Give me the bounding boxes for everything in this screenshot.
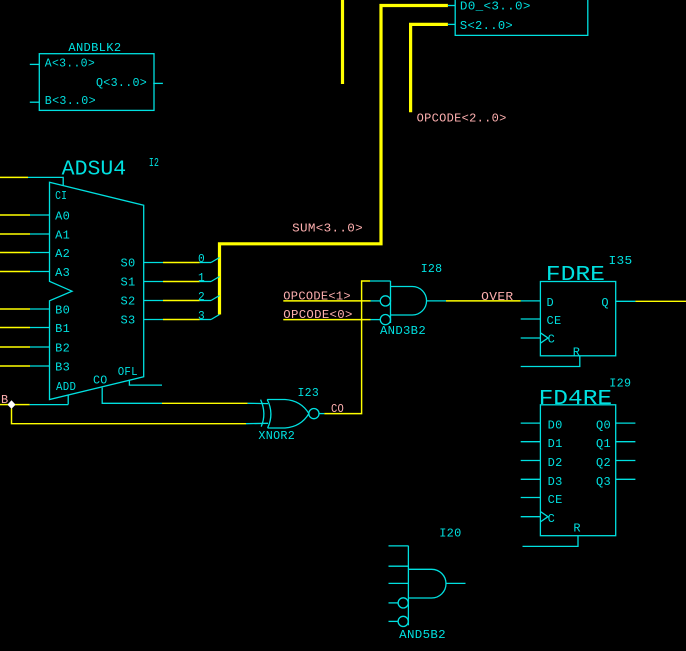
svg-text:Q0: Q0: [596, 419, 611, 433]
svg-text:3: 3: [198, 309, 205, 323]
wire S2 with bus tap 2: [144, 296, 220, 301]
svg-text:A1: A1: [55, 229, 70, 243]
svg-text:S2: S2: [121, 294, 136, 308]
svg-text:D1: D1: [548, 437, 563, 451]
wire A2: [0, 252, 50, 254]
svg-text:R: R: [573, 346, 581, 360]
svg-text:I23: I23: [298, 386, 320, 400]
svg-text:2: 2: [198, 290, 205, 304]
svg-text:B1: B1: [55, 322, 70, 336]
svg-text:FD4RE: FD4RE: [539, 388, 613, 411]
svg-text:SUM<3..0>: SUM<3..0>: [292, 222, 363, 236]
pin stub D1: [521, 441, 541, 443]
wire CI: [0, 177, 63, 185]
svg-text:ANDBLK2: ANDBLK2: [68, 41, 121, 55]
pin stub Q0: [616, 422, 636, 424]
svg-text:OFL: OFL: [118, 365, 138, 379]
adder ADSU4 outline: [50, 182, 144, 399]
svg-text:I20: I20: [439, 527, 461, 541]
flip-flop FD4RE I29: [540, 405, 615, 536]
wire B2: [0, 346, 50, 348]
svg-text:B3: B3: [55, 361, 70, 375]
gate AND3B2 I28: [380, 281, 426, 325]
pin stub 5: [389, 545, 409, 547]
clock triangle FD4RE: [540, 512, 548, 522]
svg-text:D2: D2: [548, 456, 563, 470]
svg-text:B<3..0>: B<3..0>: [45, 94, 96, 108]
wire XNOR output / net CO: [319, 281, 391, 414]
svg-text:CO: CO: [331, 402, 344, 416]
svg-text:A3: A3: [55, 266, 70, 280]
wire B0: [0, 308, 50, 310]
svg-text:A0: A0: [55, 210, 70, 224]
pin stub R: [523, 536, 579, 547]
svg-text:I29: I29: [609, 377, 631, 391]
pin stub A<3..0>: [30, 63, 40, 65]
svg-text:D3: D3: [548, 475, 563, 489]
block top-right (partial): [455, 0, 588, 35]
svg-text:A<3..0>: A<3..0>: [45, 57, 95, 71]
svg-text:XNOR2: XNOR2: [258, 429, 295, 443]
wire A1: [0, 233, 50, 235]
svg-text:Q: Q: [601, 296, 609, 310]
wire OPCODE<0>: [283, 319, 380, 321]
pin stub Q2: [616, 460, 636, 462]
svg-text:AND3B2: AND3B2: [380, 324, 426, 338]
svg-text:C: C: [548, 512, 556, 526]
pin stub B<3..0>: [30, 101, 40, 103]
wire S0 with bus tap 0: [144, 258, 220, 263]
svg-text:FDRE: FDRE: [546, 264, 605, 287]
svg-text:I35: I35: [609, 254, 633, 268]
block ANDBLK2: [39, 54, 154, 111]
wire B3: [0, 365, 50, 367]
svg-text:D: D: [547, 296, 555, 310]
bus OPCODE<2..0> net: [411, 24, 448, 112]
svg-text:CI: CI: [55, 189, 67, 203]
wire B horizontal: [0, 404, 68, 406]
wire B1: [0, 327, 50, 329]
svg-text:C: C: [548, 333, 556, 347]
svg-text:OPCODE<2..0>: OPCODE<2..0>: [417, 112, 507, 126]
svg-text:Q2: Q2: [596, 456, 611, 470]
svg-text:B0: B0: [55, 304, 70, 318]
pin stub D3: [521, 478, 541, 480]
pin stub 3: [389, 582, 409, 584]
pin stub Q<3..0>: [153, 82, 163, 84]
pin stub ADD: [67, 395, 69, 405]
svg-text:S1: S1: [121, 275, 136, 289]
pin stub D0_: [448, 5, 455, 7]
svg-text:I28: I28: [421, 262, 443, 276]
pin stub CE: [521, 497, 541, 499]
svg-text:D0: D0: [548, 419, 563, 433]
pin stub 4: [389, 565, 409, 567]
bus vertical (left of block, unnamed): [341, 0, 344, 84]
svg-text:CE: CE: [548, 493, 563, 507]
pin stub C: [521, 337, 541, 339]
svg-text:OPCODE<0>: OPCODE<0>: [283, 308, 352, 322]
svg-text:Q1: Q1: [596, 437, 611, 451]
svg-text:A2: A2: [55, 247, 70, 261]
pin stub CO + wire to XNOR: [102, 388, 268, 404]
pin stub D2: [521, 460, 541, 462]
pin stub D0: [521, 422, 541, 424]
gate XNOR2 I23: [261, 400, 319, 429]
svg-text:ADD: ADD: [56, 380, 76, 394]
svg-text:S<2..0>: S<2..0>: [460, 19, 513, 33]
pin stub OFL: [129, 380, 162, 386]
svg-text:S0: S0: [121, 256, 136, 270]
pin stub 1: [389, 620, 399, 622]
pin stub C: [521, 516, 541, 518]
svg-text:I2: I2: [149, 156, 159, 170]
flip-flop FDRE I35: [540, 282, 615, 356]
svg-text:B2: B2: [55, 342, 70, 356]
wire AND5B2 output: [446, 582, 466, 584]
gate AND5B2 I20: [398, 546, 446, 627]
bus SUM<3..0> net: [220, 6, 448, 315]
svg-text:R: R: [573, 522, 581, 536]
junction dot B: [7, 400, 15, 409]
svg-text:Q<3..0>: Q<3..0>: [96, 76, 147, 90]
wire A3: [0, 271, 50, 273]
wire S3 with bus tap 3: [144, 315, 220, 320]
svg-text:CO: CO: [93, 374, 108, 388]
clock triangle FDRE: [540, 333, 548, 343]
svg-text:Q3: Q3: [596, 475, 611, 489]
pin stub 2: [389, 602, 399, 604]
svg-text:AND5B2: AND5B2: [399, 628, 446, 642]
wire OVER (AND3B2 out to FDRE D): [427, 300, 541, 302]
svg-text:0: 0: [198, 252, 205, 266]
svg-text:OPCODE<1>: OPCODE<1>: [283, 290, 351, 304]
svg-text:CE: CE: [547, 314, 562, 328]
wire A0: [0, 214, 50, 216]
wire B down and to XNOR: [12, 409, 269, 424]
pin stub Q3: [616, 478, 636, 480]
svg-text:OVER: OVER: [481, 290, 513, 304]
svg-text:ADSU4: ADSU4: [62, 159, 127, 182]
wire S1 with bus tap 1: [144, 277, 220, 282]
pin stub CE: [521, 318, 541, 320]
svg-text:D0_<3..0>: D0_<3..0>: [460, 0, 531, 14]
pin stub Q1: [616, 441, 636, 443]
wire Q output: [616, 300, 686, 302]
svg-text:S3: S3: [121, 313, 136, 327]
pin stub R: [521, 356, 580, 367]
wire OPCODE<1>: [283, 300, 380, 302]
svg-text:1: 1: [198, 271, 205, 285]
pin stub S: [448, 23, 455, 25]
